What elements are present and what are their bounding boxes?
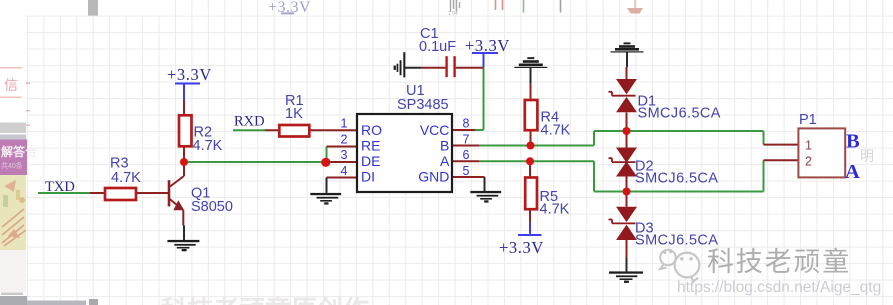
svg-text:4.7K: 4.7K xyxy=(540,202,570,218)
svg-text:SMCJ6.5CA: SMCJ6.5CA xyxy=(635,171,718,187)
svg-text:S8050: S8050 xyxy=(191,199,233,215)
svg-text:1: 1 xyxy=(805,139,812,153)
svg-text:B: B xyxy=(846,131,860,153)
svg-text:信: 信 xyxy=(4,77,18,93)
svg-text:RE: RE xyxy=(361,138,380,154)
svg-text:https://blog.csdn.net/Aige_qtg: https://blog.csdn.net/Aige_qtg xyxy=(677,279,881,296)
svg-text:SMCJ6.5CA: SMCJ6.5CA xyxy=(635,233,718,249)
svg-text:SMCJ6.5CA: SMCJ6.5CA xyxy=(638,106,721,122)
svg-text:A: A xyxy=(845,161,860,183)
svg-text:1 04: 1 04 xyxy=(448,11,458,17)
svg-text:RO: RO xyxy=(361,122,382,138)
svg-text:解答合: 解答合 xyxy=(1,144,38,159)
svg-text:8: 8 xyxy=(463,117,470,131)
svg-text:TXD: TXD xyxy=(45,179,75,195)
svg-text:DI: DI xyxy=(361,169,375,185)
svg-text:3: 3 xyxy=(341,148,348,162)
svg-text:+3.3V: +3.3V xyxy=(167,65,212,84)
svg-text:4.7K: 4.7K xyxy=(111,170,141,186)
svg-text:共40条: 共40条 xyxy=(1,161,23,170)
svg-text:GND: GND xyxy=(418,169,449,185)
svg-text:+3.3V: +3.3V xyxy=(499,238,544,257)
svg-text:VCC: VCC xyxy=(420,122,450,138)
svg-text:+3.3V: +3.3V xyxy=(465,36,510,55)
svg-text:SP3485: SP3485 xyxy=(397,97,449,113)
svg-text:7: 7 xyxy=(463,133,470,147)
svg-text:1: 1 xyxy=(341,117,348,131)
svg-text:6: 6 xyxy=(463,148,470,162)
svg-text:1K: 1K xyxy=(285,106,303,122)
svg-text:A: A xyxy=(440,153,450,169)
svg-text:2: 2 xyxy=(341,133,348,147)
svg-text:明: 明 xyxy=(860,148,874,164)
svg-text:RXD: RXD xyxy=(234,114,265,130)
svg-text:4.7K: 4.7K xyxy=(541,123,571,139)
svg-text:DE: DE xyxy=(361,153,380,169)
svg-text:科技老顽童: 科技老顽童 xyxy=(707,247,851,277)
svg-text:科技老顽童原创作: 科技老顽童原创作 xyxy=(161,295,369,305)
svg-text:2: 2 xyxy=(805,155,812,169)
svg-text:B: B xyxy=(440,138,449,154)
svg-text:4.7K: 4.7K xyxy=(193,138,223,154)
svg-text:0.1uF: 0.1uF xyxy=(419,39,456,55)
svg-text:P1: P1 xyxy=(799,112,817,128)
svg-text:4: 4 xyxy=(341,164,348,178)
svg-text:5: 5 xyxy=(463,164,470,178)
